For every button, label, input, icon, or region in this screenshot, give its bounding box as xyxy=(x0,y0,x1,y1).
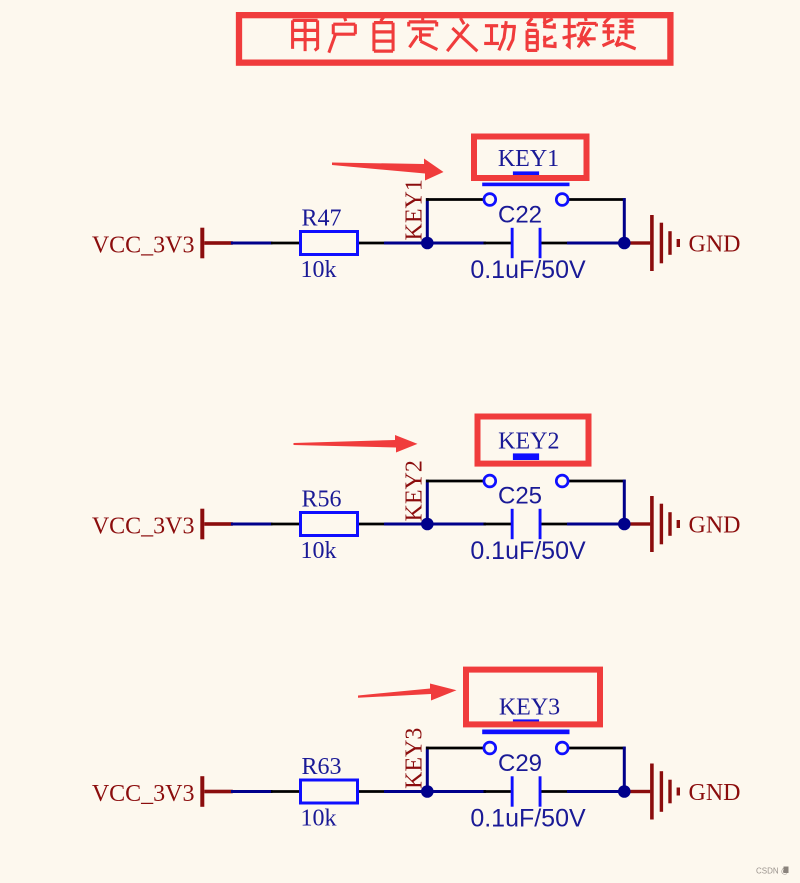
wire switch pin left (top) xyxy=(426,747,484,750)
net label KEY1 (boxed, underlined) xyxy=(498,146,559,172)
svg-text:KEY3: KEY3 xyxy=(499,695,560,721)
wire switch pin right (top) xyxy=(568,480,625,483)
wire switch down to node (right vertical) xyxy=(623,480,626,524)
wire R to node xyxy=(384,790,486,793)
svg-text:0.1uF/50V: 0.1uF/50V xyxy=(470,256,586,284)
wire C to GND node xyxy=(567,242,619,245)
wire C to GND node xyxy=(567,523,619,526)
svg-text:R56: R56 xyxy=(301,487,341,513)
wire C to GND node xyxy=(567,790,619,793)
svg-text:C22: C22 xyxy=(498,202,542,229)
net label KEY2 (boxed, underlined) xyxy=(498,429,559,455)
wire switch pin right (top) xyxy=(568,198,625,201)
svg-text:VCC_3V3: VCC_3V3 xyxy=(92,232,195,258)
ground symbol GND (circuit 1) xyxy=(631,215,741,271)
watermark CSDN xyxy=(756,867,789,876)
junction node KEY1 xyxy=(421,237,434,250)
svg-text:C25: C25 xyxy=(498,483,542,510)
power port VCC_3V3 (circuit 3) xyxy=(92,776,233,807)
resistor R63 10k xyxy=(271,754,386,832)
ground symbol GND (circuit 3) xyxy=(631,764,741,820)
svg-text:GND: GND xyxy=(689,780,741,806)
svg-text:VCC_3V3: VCC_3V3 xyxy=(92,781,195,807)
wire switch down to node (right vertical) xyxy=(623,198,626,243)
annotation red box around KEY3 xyxy=(466,670,600,725)
net label KEY3 (boxed, underlined) xyxy=(499,695,560,721)
svg-text:KEY2: KEY2 xyxy=(498,429,559,455)
annotation arrow 1 xyxy=(332,159,444,181)
wire node up to switch (left vertical) xyxy=(426,198,429,243)
svg-text:KEY1: KEY1 xyxy=(498,146,559,172)
svg-text:GND: GND xyxy=(689,232,741,258)
ground symbol GND (circuit 2) xyxy=(631,496,741,552)
wire switch pin left (top) xyxy=(426,198,484,201)
resistor R56 10k xyxy=(271,487,386,565)
svg-text:VCC_3V3: VCC_3V3 xyxy=(92,513,195,539)
annotation arrow 3 xyxy=(358,684,457,701)
svg-text:C29: C29 xyxy=(498,750,542,777)
capacitor C22 0.1uF/50V xyxy=(470,202,586,284)
junction node GND side xyxy=(618,518,631,531)
annotation red box around KEY1 xyxy=(474,137,587,179)
wire node up to switch (left vertical) xyxy=(426,747,429,792)
junction node KEY3 xyxy=(421,785,434,798)
push button switch KEY3 xyxy=(482,719,569,753)
junction node GND side xyxy=(618,237,631,250)
wire switch pin right (top) xyxy=(568,747,625,750)
wire R to node xyxy=(384,523,486,526)
wire VCC_3V3 to R xyxy=(231,790,273,793)
resistor R47 10k xyxy=(271,206,386,284)
junction node KEY2 xyxy=(421,518,434,531)
wire node up to switch (left vertical) xyxy=(426,480,429,524)
power port VCC_3V3 (circuit 1) xyxy=(92,228,233,259)
capacitor C29 0.1uF/50V xyxy=(470,750,586,832)
svg-text:10k: 10k xyxy=(301,538,337,564)
svg-text:KEY3: KEY3 xyxy=(402,728,428,789)
svg-text:10k: 10k xyxy=(301,806,337,832)
svg-text:R63: R63 xyxy=(301,754,341,780)
power port VCC_3V3 (circuit 2) xyxy=(92,509,233,540)
svg-text:KEY2: KEY2 xyxy=(402,460,428,521)
svg-text:0.1uF/50V: 0.1uF/50V xyxy=(470,805,586,833)
push button switch KEY1 xyxy=(482,171,569,205)
svg-text:10k: 10k xyxy=(301,257,337,283)
wire R to node xyxy=(384,242,486,245)
push button switch KEY2 xyxy=(482,453,569,487)
svg-text:0.1uF/50V: 0.1uF/50V xyxy=(470,537,586,565)
wire switch pin left (top) xyxy=(426,480,484,483)
title text 用户自定义功能按键 xyxy=(293,17,636,53)
svg-text:GND: GND xyxy=(689,513,741,539)
capacitor C25 0.1uF/50V xyxy=(470,483,586,565)
title box xyxy=(239,15,670,63)
annotation red box around KEY2 xyxy=(478,417,589,464)
junction node GND side xyxy=(618,785,631,798)
annotation arrow 2 xyxy=(294,435,418,453)
wire VCC_3V3 to R xyxy=(231,523,273,526)
svg-text:R47: R47 xyxy=(301,206,341,232)
wire switch down to node (right vertical) xyxy=(623,747,626,792)
wire VCC_3V3 to R xyxy=(231,242,273,245)
svg-text:KEY1: KEY1 xyxy=(402,179,428,240)
